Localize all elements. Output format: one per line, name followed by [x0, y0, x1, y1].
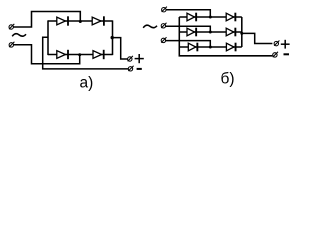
diode D2: [92, 16, 105, 25]
wire: minus tap jog and long bottom line to minus terminal: [43, 37, 129, 69]
node junction phase 3 / row 3: [209, 46, 212, 49]
terminal output plus (b): [274, 41, 279, 46]
terminal phase 1 (b): [162, 7, 167, 12]
label minus sign (a): [137, 68, 142, 70]
diode VD5 (row3 col1): [188, 43, 198, 52]
diode VD2 (row1 col2): [226, 13, 236, 22]
wire: bottom diode row line: [48, 54, 113, 56]
terminal input 1 (a): [9, 24, 14, 29]
diode VD4 (row2 col2): [226, 28, 236, 37]
label minus sign (b): [284, 53, 290, 55]
terminal input 2 (a): [9, 42, 14, 47]
wire: diode row 2 with extension to plus tap: [179, 31, 242, 33]
wire: top diode row line: [48, 20, 113, 22]
diode VD1 (row1 col1): [187, 13, 197, 22]
AC source tilde (b): [143, 25, 157, 28]
node junction cathode bus / row 2: [240, 32, 243, 35]
terminal output plus (a): [128, 56, 133, 61]
diode VD6 (row3 col2): [226, 43, 236, 52]
terminal output minus (a): [128, 66, 133, 71]
diode VD3 (row2 col1): [187, 28, 197, 37]
label plus sign (b): [281, 40, 290, 49]
AC source tilde (a): [12, 34, 26, 37]
wire: plus branch to plus terminal: [112, 38, 127, 59]
node junction D1-D2 midpoint: [79, 20, 82, 23]
wire: diode row 3: [179, 46, 242, 48]
wire: terminal 2 down and under to D3-D4 node: [13, 45, 79, 64]
terminal output minus (b): [273, 52, 278, 57]
node junction D3-D4 midpoint: [78, 53, 81, 56]
label plus sign (a): [135, 54, 144, 63]
wire: plus output tap: [242, 33, 273, 43]
wire: right vertical joining top and bottom rows (plus node): [112, 20, 114, 55]
svg-text:а): а): [80, 75, 94, 91]
wire: phase 2 to row 2 junction (crosses anode bus): [166, 26, 211, 32]
terminal phase 3 (b): [161, 37, 166, 42]
wire: phase 3 to row 3 junction (crosses anode bus): [166, 41, 211, 47]
diode D1: [57, 16, 69, 25]
wire: phase 1 to row 1 junction: [166, 10, 210, 17]
wire: left vertical joining top and bottom rows (minus node): [47, 20, 49, 55]
diode D3: [57, 50, 69, 59]
wire: left anode bus and bottom minus line: [179, 17, 272, 56]
terminal phase 2 (b): [161, 23, 166, 28]
wire: diode row 1: [179, 16, 242, 18]
node junction plus tap: [111, 36, 114, 39]
node junction phase 1 / row 1: [209, 16, 212, 19]
wire: right cathode bus: [241, 17, 243, 47]
svg-text:б): б): [221, 70, 235, 87]
node junction phase 2 / row 2: [209, 31, 212, 34]
wire: terminal 1 to top line and riser to D1-D2 node: [13, 12, 80, 28]
diode D4: [93, 50, 105, 59]
